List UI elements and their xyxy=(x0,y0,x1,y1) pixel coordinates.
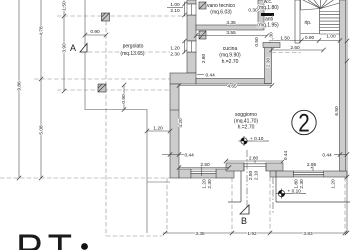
benchmark level symbol 2 xyxy=(276,189,306,199)
svg-text:1.20: 1.20 xyxy=(331,179,337,189)
svg-text:4.65: 4.65 xyxy=(227,83,237,89)
vano tecnico south wall xyxy=(196,25,264,30)
svg-text:0.44: 0.44 xyxy=(206,73,216,79)
south wall west under window xyxy=(191,174,216,179)
vano tecnico labels xyxy=(207,3,235,16)
west wall upper segment 2 xyxy=(187,15,196,41)
back zone dim line 1.50 0.90 1.00 xyxy=(272,40,341,42)
dashed extension SE corner xyxy=(344,177,346,233)
svg-text:2: 2 xyxy=(298,110,310,138)
svg-text:2.80: 2.80 xyxy=(201,54,207,64)
dim line 0.90 pergola top xyxy=(85,34,106,36)
svg-text:3.55: 3.55 xyxy=(226,30,236,36)
svg-text:2.60: 2.60 xyxy=(290,45,300,51)
svg-text:h.=2.70: h.=2.70 xyxy=(222,59,239,65)
dim line 2.60 xyxy=(272,49,324,51)
right margin dim line xyxy=(346,0,348,233)
svg-text:5.08: 5.08 xyxy=(39,125,45,135)
dim tick line 2.80 door xyxy=(254,157,256,164)
svg-text:2.30: 2.30 xyxy=(170,52,180,58)
dim line window west 2 vertical xyxy=(184,40,186,53)
dim line window west 1 label divider xyxy=(167,6,183,8)
west window 2 xyxy=(187,41,196,52)
svg-text:1.50: 1.50 xyxy=(280,36,290,42)
corner block west xyxy=(170,73,196,84)
back zone dims xyxy=(280,34,336,51)
anti labels xyxy=(257,17,279,29)
svg-text:0.44: 0.44 xyxy=(283,151,289,161)
south window west xyxy=(191,169,216,174)
west wall lower (soggiorno) xyxy=(170,84,179,178)
entrance door threshold xyxy=(244,163,266,171)
west window 1 xyxy=(187,4,196,15)
cucina-hall wall xyxy=(265,43,272,84)
svg-text:1.92: 1.92 xyxy=(247,231,257,237)
west wall upper segment 1 xyxy=(187,0,196,4)
svg-text:PT: PT xyxy=(16,227,77,250)
cucina labels xyxy=(219,46,241,65)
svg-text:1.50: 1.50 xyxy=(62,1,68,11)
section A dashed line xyxy=(88,51,170,53)
pilaster column cucina xyxy=(199,31,206,39)
dimension texts left margin xyxy=(17,1,163,135)
dim tick wall 4.20 xyxy=(170,109,179,111)
svg-text:2.50: 2.50 xyxy=(200,162,210,168)
svg-text:vano tecnico: vano tecnico xyxy=(207,3,235,9)
svg-text:soggiorno: soggiorno xyxy=(235,112,257,118)
svg-text:(mq.6.03): (mq.6.03) xyxy=(210,10,232,16)
dim line 0.44 east corner xyxy=(334,154,347,156)
dashed line through column 2 xyxy=(57,89,170,91)
dim line 0.90 pergola bottom xyxy=(123,85,125,110)
svg-text:0.90: 0.90 xyxy=(90,29,100,35)
rip west partition xyxy=(295,0,300,43)
svg-text:9.86: 9.86 xyxy=(17,81,23,91)
bottom dims xyxy=(195,231,313,237)
west window labels xyxy=(170,2,180,58)
porch dash-dot extension xyxy=(272,177,274,214)
pergola top dashed line xyxy=(57,15,187,17)
dashed overhang line under stairs xyxy=(265,52,301,54)
svg-text:3.35: 3.35 xyxy=(226,20,236,26)
svg-text:2.30: 2.30 xyxy=(266,58,272,68)
dim line 1.50 / 3.90 xyxy=(63,0,65,91)
section marker A xyxy=(70,43,87,53)
svg-text:2.80: 2.80 xyxy=(249,156,259,162)
svg-text:0.50: 0.50 xyxy=(254,37,260,47)
svg-text:1.20: 1.20 xyxy=(202,179,208,189)
south window east xyxy=(294,171,324,175)
dim line 3.55 xyxy=(196,35,267,37)
cucina south wall xyxy=(196,79,271,85)
svg-text:3.90: 3.90 xyxy=(62,43,68,53)
dim line 0.44 cucina xyxy=(197,74,204,76)
svg-text:3.83: 3.83 xyxy=(303,231,313,237)
level number circle 2 xyxy=(292,110,316,138)
section line B dash-dot xyxy=(247,150,273,214)
svg-text:A: A xyxy=(70,43,76,53)
east wall xyxy=(340,0,346,171)
dim line 9.86 xyxy=(18,0,20,178)
dim line window west 1 vertical xyxy=(184,2,186,17)
back zone south wall xyxy=(263,43,280,48)
svg-text:4.78: 4.78 xyxy=(39,26,45,36)
soggiorno labels xyxy=(234,112,259,131)
svg-text:2.10: 2.10 xyxy=(170,8,180,14)
svg-text:4.20: 4.20 xyxy=(178,118,184,128)
svg-text:0.90: 0.90 xyxy=(305,35,315,41)
dim tick line 2.50 window xyxy=(201,162,203,176)
dashed extension SW corner xyxy=(166,178,168,233)
svg-text:1.80: 1.80 xyxy=(294,179,300,189)
dim line 4.78 / 5.08 xyxy=(40,0,42,178)
svg-text:+ 0.10: + 0.10 xyxy=(250,136,264,142)
svg-text:1.30: 1.30 xyxy=(269,32,275,42)
south wall center left of door xyxy=(226,163,244,171)
south wall east left of window xyxy=(270,171,294,177)
svg-text:(mq.1.95): (mq.1.95) xyxy=(257,23,279,29)
west wall upper segment 3 xyxy=(187,52,196,73)
svg-text:pergolato: pergolato xyxy=(123,44,144,50)
dim line 4.65 xyxy=(179,85,272,87)
svg-text:2.30: 2.30 xyxy=(299,179,305,189)
dim line 1.20 left of soggiorno xyxy=(147,130,170,132)
dim line 0.30 vano xyxy=(260,9,270,11)
svg-text:(mq.9.90): (mq.9.90) xyxy=(219,53,241,59)
staircase xyxy=(301,0,340,34)
south wall east right of window xyxy=(324,171,347,177)
terrace edge polyline xyxy=(85,0,170,233)
porch walls xyxy=(228,171,350,202)
pergola column 1 xyxy=(102,13,110,21)
walls xyxy=(170,0,347,178)
svg-text:B: B xyxy=(241,216,247,226)
svg-text:6.50: 6.50 xyxy=(334,106,340,116)
south wall east under window xyxy=(294,175,324,178)
svg-text:1.20: 1.20 xyxy=(170,46,180,52)
svg-text:1.00: 1.00 xyxy=(170,2,180,8)
svg-text:0.90: 0.90 xyxy=(121,94,127,104)
dashed column axis vertical xyxy=(105,21,107,236)
svg-text:2.95: 2.95 xyxy=(307,162,317,168)
svg-text:1.20: 1.20 xyxy=(153,126,163,132)
svg-text:(mq.1.80): (mq.1.80) xyxy=(257,5,279,11)
svg-text:2.10: 2.10 xyxy=(254,171,260,181)
dim line 2.50 window west xyxy=(179,167,229,169)
dim line 0.44 west xyxy=(162,154,184,156)
dim line 2.80 center xyxy=(226,160,283,162)
svg-text:h.=2.70: h.=2.70 xyxy=(238,125,255,131)
wc labels xyxy=(257,0,279,11)
long dashed line left area xyxy=(0,177,170,179)
pergola column 2 xyxy=(98,84,106,92)
dashed line at wall step xyxy=(34,78,170,80)
south wall west part right xyxy=(216,169,234,178)
svg-text:1.00: 1.00 xyxy=(326,34,336,40)
svg-text:0.44: 0.44 xyxy=(185,153,195,159)
section marker B xyxy=(240,205,249,226)
benchmark level symbol 1 xyxy=(239,136,270,146)
vano tecnico east wall xyxy=(258,0,264,25)
svg-text:2.30: 2.30 xyxy=(207,179,213,189)
dashed line bottom left corner horizontal xyxy=(106,235,162,237)
dashed extension facade tick 1 xyxy=(231,171,233,233)
dim tick line 2.95 xyxy=(312,162,314,171)
dashed extension facade tick 2 xyxy=(269,177,271,233)
bottom dim line xyxy=(163,232,347,234)
south wall west part left xyxy=(179,169,191,178)
svg-text:0.44: 0.44 xyxy=(322,153,332,159)
wc-anti door black bar xyxy=(261,13,274,16)
svg-text:(mq.13.65): (mq.13.65) xyxy=(120,51,145,57)
pilaster column top xyxy=(199,2,206,9)
svg-text:3.38: 3.38 xyxy=(195,231,205,237)
svg-text:cucina: cucina xyxy=(223,46,238,52)
pergola label xyxy=(120,44,145,58)
south wall center right of door xyxy=(266,163,283,171)
svg-text:2.50: 2.50 xyxy=(248,171,254,181)
svg-text:rip.: rip. xyxy=(305,20,312,26)
